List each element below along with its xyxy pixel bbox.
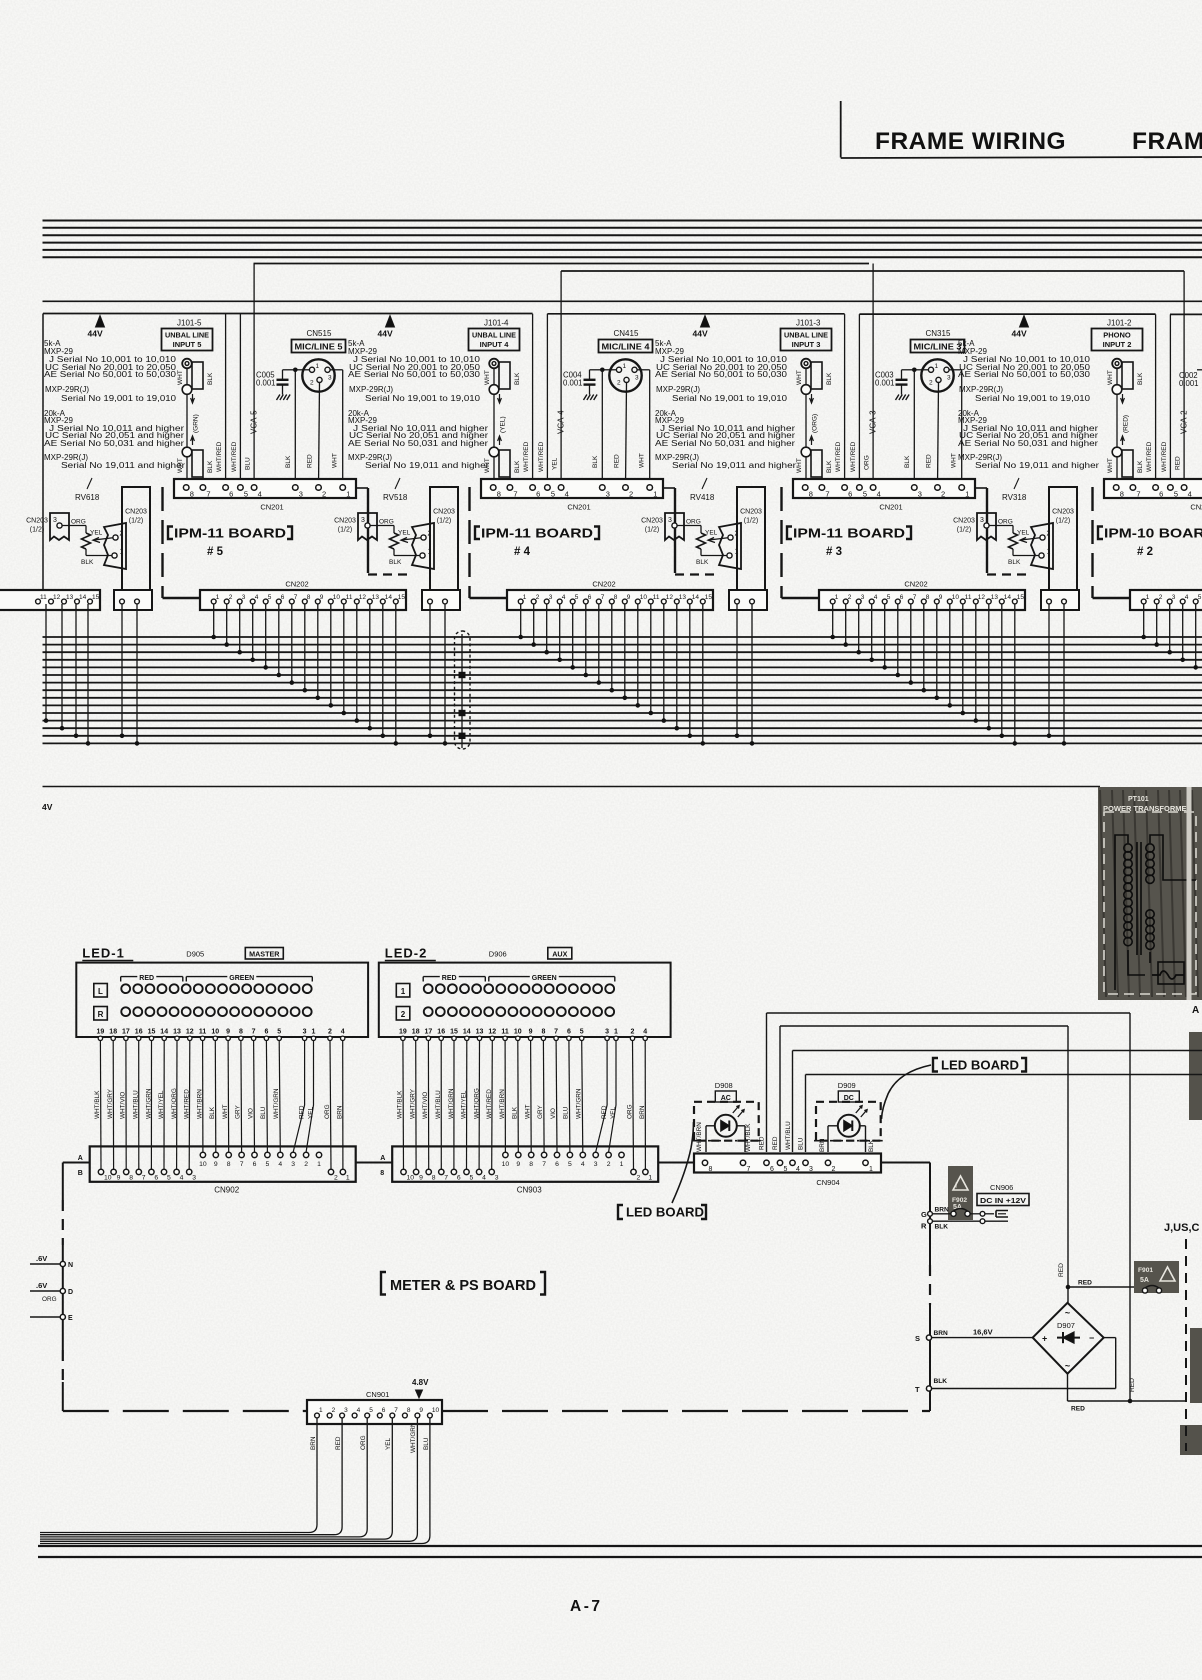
svg-text:2: 2: [832, 1166, 836, 1173]
svg-text:D906: D906: [489, 950, 507, 959]
pin circles LED-2: [401, 1036, 405, 1040]
svg-text:GRY: GRY: [537, 1105, 544, 1119]
svg-text:WHT: WHT: [177, 458, 184, 473]
svg-text:2: 2: [310, 380, 314, 387]
separator rule above lower section: [43, 786, 1101, 788]
svg-text:11: 11: [501, 1029, 509, 1036]
svg-text:9: 9: [627, 594, 631, 601]
capacitor C004 ch4: [590, 369, 603, 371]
svg-text:T: T: [915, 1385, 920, 1394]
svg-text:4: 4: [180, 1175, 184, 1182]
LED light arrows D908: [733, 1106, 739, 1113]
harness wires LED-2 to CN903: [402, 1041, 405, 1170]
svg-text:F901: F901: [1138, 1267, 1153, 1274]
svg-text:RED: RED: [926, 454, 933, 468]
svg-text:15: 15: [450, 1029, 458, 1036]
svg-text:BLU: BLU: [245, 457, 252, 470]
svg-text:12: 12: [359, 594, 367, 601]
svg-text:6: 6: [281, 594, 285, 601]
svg-text:WHT/GRY: WHT/GRY: [410, 1088, 417, 1119]
wire pot to pin1 RV318: [1012, 549, 1014, 556]
svg-text:MIC/LINE 4: MIC/LINE 4: [602, 343, 651, 352]
svg-text:17: 17: [122, 1029, 130, 1036]
svg-text:RED: RED: [298, 1105, 305, 1119]
svg-text:3: 3: [53, 517, 57, 524]
svg-text:.6V: .6V: [36, 1281, 47, 1290]
svg-text:9: 9: [117, 1175, 121, 1182]
svg-text:2: 2: [328, 1029, 332, 1036]
svg-text:ORG: ORG: [324, 1104, 331, 1119]
wire pot to pin1 RV618: [85, 549, 87, 556]
svg-text:CN415: CN415: [614, 329, 639, 338]
svg-text:E: E: [68, 1315, 73, 1322]
svg-text:7: 7: [542, 1161, 546, 1168]
connector flag CN203 pin3 RV618: [50, 513, 69, 540]
svg-text:8: 8: [432, 1175, 436, 1182]
svg-text:6: 6: [588, 594, 592, 601]
svg-text:16: 16: [135, 1029, 143, 1036]
svg-text:5: 5: [167, 1175, 171, 1182]
svg-text:4: 4: [874, 594, 878, 601]
svg-text:CN903: CN903: [517, 1186, 542, 1195]
svg-text:9: 9: [516, 1161, 520, 1168]
connector flag CN203 pin3 RV418: [665, 513, 684, 540]
svg-text:(1/2): (1/2): [645, 527, 659, 534]
svg-text:Serial No 19,011 and higher: Serial No 19,011 and higher: [61, 461, 185, 470]
svg-text:RV318: RV318: [1002, 493, 1027, 502]
svg-text:(RED): (RED): [1123, 415, 1130, 433]
board edge pins N, D, E: [30, 1263, 63, 1265]
svg-text:4: 4: [482, 1175, 486, 1182]
svg-text:7: 7: [554, 1029, 558, 1036]
connector CN203 half-2 box RV618: [122, 487, 150, 593]
CN903 top pin row: [503, 1152, 508, 1157]
svg-text:WHT/BRN: WHT/BRN: [196, 1089, 203, 1119]
svg-text:MXP-29R(J): MXP-29R(J): [45, 385, 89, 394]
svg-text:5A: 5A: [1140, 1277, 1149, 1284]
svg-text:J101-5: J101-5: [177, 319, 202, 328]
svg-text:WHT/VIO: WHT/VIO: [422, 1092, 429, 1119]
connector CN203 half-2 box RV518: [430, 487, 458, 593]
svg-text:5: 5: [277, 1029, 281, 1036]
svg-text:8: 8: [529, 1161, 533, 1168]
junction capsule callout: [455, 631, 471, 749]
svg-text:7: 7: [294, 594, 298, 601]
optical axis dash-dot D909: [814, 1140, 883, 1142]
svg-text:1: 1: [965, 490, 969, 499]
connector bar below CN203 RV418: [729, 590, 767, 610]
wire CN902 to CN903: [356, 1162, 393, 1164]
svg-text:WHT/RED: WHT/RED: [538, 441, 545, 472]
svg-text:2: 2: [334, 1175, 338, 1182]
svg-text:Serial No 19,001 to 19,010: Serial No 19,001 to 19,010: [61, 394, 177, 403]
svg-text:44V: 44V: [88, 329, 103, 339]
svg-text:6: 6: [1159, 490, 1163, 499]
drops from CN203 bar RV318: [1048, 604, 1050, 736]
svg-text:BLK: BLK: [514, 372, 521, 385]
svg-text:BLK: BLK: [826, 460, 833, 473]
board name IPM board #4: [475, 527, 480, 540]
ground symbol ch4: [584, 395, 587, 401]
CN202 harness drops ch2: [1143, 604, 1145, 637]
connector bar below CN203 RV518: [422, 590, 460, 610]
svg-text:+: +: [1042, 1334, 1047, 1344]
svg-text:A: A: [380, 1155, 385, 1162]
svg-text:(1/2): (1/2): [744, 518, 758, 525]
drops from CN203 bar RV418: [736, 604, 738, 736]
horizontal feeders to power section: [767, 1012, 1131, 1014]
connector CN201 ch5: [174, 479, 356, 498]
svg-text:BRN: BRN: [934, 1330, 949, 1337]
svg-text:(1/2): (1/2): [437, 518, 451, 525]
svg-text:11: 11: [40, 594, 47, 601]
svg-text:9: 9: [419, 1175, 423, 1182]
input legend box ch3: [781, 329, 832, 351]
svg-text:Serial No 19,001 to 19,010: Serial No 19,001 to 19,010: [672, 394, 788, 403]
label LED BOARD (upper): [933, 1058, 938, 1072]
svg-text:5: 5: [580, 1029, 584, 1036]
svg-text:INPUT 5: INPUT 5: [173, 340, 202, 349]
svg-text:WHT: WHT: [639, 453, 646, 468]
svg-text:10: 10: [640, 594, 648, 601]
svg-text:.6V: .6V: [36, 1254, 47, 1263]
svg-text:(GRN): (GRN): [193, 414, 200, 433]
svg-text:9: 9: [214, 1161, 218, 1168]
svg-text:5: 5: [1198, 594, 1202, 601]
svg-text:WHT/RED: WHT/RED: [850, 441, 857, 472]
svg-text:A: A: [1192, 1005, 1199, 1016]
svg-text:BRN: BRN: [639, 1105, 646, 1119]
svg-text:8: 8: [497, 490, 501, 499]
legend box MASTER: [245, 948, 283, 960]
svg-text:1: 1: [319, 1407, 323, 1414]
svg-text:J101-3: J101-3: [796, 319, 821, 328]
wire pin3 to pot RV318: [989, 525, 1013, 527]
svg-text:RED: RED: [1129, 1378, 1136, 1392]
svg-text:PHONO: PHONO: [1103, 331, 1131, 340]
svg-text:WHT/ORG: WHT/ORG: [473, 1088, 480, 1119]
svg-text:BLK: BLK: [934, 1378, 948, 1385]
connector flag CN203 pins 2,1 RV518: [412, 523, 434, 569]
svg-text:10: 10: [199, 1161, 207, 1168]
svg-text:POWER TRANSFORMER: POWER TRANSFORMER: [1103, 804, 1193, 813]
optical axis dash-dot D908: [692, 1140, 761, 1142]
page bottom rule 2: [38, 1556, 1202, 1558]
svg-text:(ORG): (ORG): [812, 414, 819, 433]
svg-text:ORG: ORG: [864, 455, 871, 470]
svg-text:1: 1: [869, 1166, 873, 1173]
svg-text:R: R: [921, 1222, 927, 1231]
CN902 bottom pin row: [98, 1169, 103, 1174]
connector bar below CN203 RV618: [114, 590, 152, 610]
svg-text:RED: RED: [139, 975, 154, 982]
wire pin3 to pot RV618: [62, 525, 86, 527]
svg-text:5: 5: [244, 490, 248, 499]
svg-text:WHT/RED: WHT/RED: [1161, 441, 1168, 472]
svg-text:R: R: [98, 1010, 104, 1019]
svg-text:14: 14: [160, 1029, 168, 1036]
svg-text:WHT/GRN: WHT/GRN: [145, 1088, 152, 1119]
svg-text:8: 8: [1120, 490, 1124, 499]
svg-text:# 3: # 3: [826, 546, 842, 558]
svg-text:1: 1: [523, 594, 527, 601]
svg-text:WHT: WHT: [796, 458, 803, 473]
svg-text:14: 14: [692, 594, 700, 601]
svg-text:7: 7: [513, 490, 517, 499]
svg-text:CN201: CN201: [567, 503, 590, 512]
svg-text:7: 7: [394, 1407, 398, 1414]
svg-text:3: 3: [809, 1166, 813, 1173]
LED light arrows D909: [856, 1106, 862, 1113]
svg-text:7: 7: [444, 1175, 448, 1182]
wire net P1 (BLU pins-4 ch5-ch3) horizontal: [254, 263, 870, 265]
svg-text:BLK: BLK: [1008, 559, 1021, 566]
svg-text:2: 2: [629, 490, 633, 499]
svg-text:AE Serial No 50,001 to 50,03: AE Serial No 50,001 to 50,030: [348, 370, 481, 379]
board outline right side: [881, 1162, 930, 1164]
44V supply arrow ch5: [96, 316, 105, 328]
svg-text:AE Serial No 50,031 and high: AE Serial No 50,031 and higher: [655, 439, 795, 448]
svg-text:7: 7: [240, 1161, 244, 1168]
dark component strip right edge (bottom): [1180, 1425, 1202, 1455]
svg-text:IPM-11 BOARD: IPM-11 BOARD: [174, 526, 286, 541]
connector CN201 ch3: [793, 479, 975, 498]
svg-text:2: 2: [617, 380, 621, 387]
connector flag CN203 pins 2,1 RV318: [1031, 523, 1053, 569]
svg-text:RED: RED: [601, 1105, 608, 1119]
XLR wires to CN201 ch3: [914, 369, 928, 371]
svg-text:2: 2: [304, 1161, 308, 1168]
svg-text:1: 1: [346, 1175, 350, 1182]
dark component strip right edge (AC select): [1189, 1032, 1202, 1120]
svg-text:3: 3: [668, 517, 672, 524]
connector bar below CN203 RV318: [1041, 590, 1079, 610]
svg-text:CN906: CN906: [990, 1183, 1013, 1192]
svg-text:5: 5: [369, 1407, 373, 1414]
svg-text:10: 10: [104, 1175, 112, 1182]
connector CN201 ch2: [1104, 479, 1202, 498]
svg-text:~: ~: [1065, 1308, 1070, 1318]
ch6 harness drops: [45, 604, 47, 721]
RED group bracket LED-2: [422, 977, 424, 982]
svg-text:MIC/LINE 5: MIC/LINE 5: [295, 343, 344, 352]
row label 1 box: [396, 984, 410, 998]
svg-text:8: 8: [407, 1407, 411, 1414]
svg-text:5: 5: [568, 1161, 572, 1168]
wire net W (pin5/6 distribution) segments at y=313: [43, 313, 533, 315]
svg-text:17: 17: [425, 1029, 433, 1036]
svg-text:7: 7: [601, 594, 605, 601]
svg-text:WHT/GRN: WHT/GRN: [410, 1422, 417, 1453]
svg-text:UNBAL LINE: UNBAL LINE: [472, 331, 516, 340]
capacitor C003 ch3: [902, 369, 915, 371]
svg-text:RED: RED: [1071, 1406, 1085, 1413]
svg-text:LED BOARD: LED BOARD: [941, 1059, 1019, 1073]
svg-text:4: 4: [565, 490, 569, 499]
svg-text:0.001: 0.001: [256, 379, 276, 388]
LED row 1 LED-2: [424, 984, 433, 993]
connector bar CN202 ch6 (clipped): [0, 590, 100, 610]
svg-text:AUX: AUX: [552, 949, 567, 958]
svg-text:D: D: [68, 1289, 73, 1296]
svg-text:WHT/BLK: WHT/BLK: [745, 1123, 752, 1152]
LED array box LED-1: [76, 963, 368, 1037]
svg-text:INPUT 4: INPUT 4: [480, 340, 510, 349]
svg-text:AE Serial No 50,031 and high: AE Serial No 50,031 and higher: [348, 439, 488, 448]
title block rule (vertical): [840, 101, 842, 158]
svg-text:YEL: YEL: [552, 457, 559, 470]
svg-text:BLK: BLK: [696, 559, 709, 566]
svg-text:WHT: WHT: [951, 453, 958, 468]
svg-text:INPUT 3: INPUT 3: [792, 340, 821, 349]
svg-text:3: 3: [594, 1161, 598, 1168]
svg-text:FRAME WIRING: FRAME WIRING: [875, 128, 1066, 155]
connector flag CN203 pins 2,1 RV418: [719, 523, 741, 569]
wire pin3 to pot RV418: [677, 525, 701, 527]
svg-text:6: 6: [154, 1175, 158, 1182]
svg-text:13: 13: [66, 594, 74, 601]
connector CN201 ch4: [481, 479, 663, 498]
svg-text:4V: 4V: [42, 802, 53, 812]
svg-text:15: 15: [705, 594, 713, 601]
legend box DC: [838, 1091, 859, 1102]
svg-text:1: 1: [312, 1029, 316, 1036]
svg-text:1: 1: [935, 363, 939, 370]
svg-text:4.8V: 4.8V: [412, 1378, 429, 1387]
svg-text:WHT: WHT: [796, 370, 803, 385]
svg-text:5: 5: [551, 490, 555, 499]
svg-text:7: 7: [252, 1029, 256, 1036]
svg-text:WHT/RED: WHT/RED: [184, 1089, 191, 1119]
svg-text:3: 3: [980, 517, 984, 524]
connector CN203 half-2 box RV418: [737, 487, 765, 593]
board outline IPM board #3: [780, 487, 782, 598]
svg-text:Serial No 19,001 to 19,010: Serial No 19,001 to 19,010: [365, 394, 481, 403]
svg-text:RED: RED: [614, 454, 621, 468]
svg-text:7: 7: [825, 490, 829, 499]
svg-text:3: 3: [549, 594, 553, 601]
connector flag CN203 pins 2,1 RV618: [104, 523, 126, 569]
svg-text:3: 3: [328, 375, 332, 382]
svg-text:1: 1: [1146, 594, 1150, 601]
bridge AC-right loop: [1104, 1337, 1116, 1339]
svg-text:13: 13: [372, 594, 380, 601]
svg-text:AE Serial No 50,001 to 50,03: AE Serial No 50,001 to 50,030: [655, 370, 788, 379]
svg-text:9: 9: [529, 1029, 533, 1036]
svg-text:# 5: # 5: [207, 546, 224, 558]
44V supply arrow ch3: [701, 316, 710, 328]
svg-text:D909: D909: [838, 1081, 856, 1090]
potentiometer RV418: [697, 533, 706, 549]
svg-text:WHT/RED: WHT/RED: [486, 1089, 493, 1119]
svg-text:1: 1: [346, 490, 350, 499]
svg-text:B: B: [78, 1170, 83, 1177]
svg-text:15: 15: [398, 594, 406, 601]
wire net P2 (pin-4 ch4-ch2) horizontal: [561, 270, 1184, 272]
meter board wire into CN902: [63, 1162, 90, 1164]
svg-text:7: 7: [747, 1166, 751, 1173]
svg-text:YEL: YEL: [90, 530, 103, 537]
svg-text:6: 6: [253, 1161, 257, 1168]
svg-text:RV418: RV418: [690, 493, 715, 502]
CN201 riser wires ch5: [225, 314, 227, 486]
svg-text:~: ~: [1065, 1361, 1070, 1371]
svg-text:RV618: RV618: [75, 493, 100, 502]
svg-text:15: 15: [1017, 594, 1025, 601]
svg-text:MIC/LINE 3: MIC/LINE 3: [914, 343, 963, 352]
LED leads D908: [705, 1126, 707, 1152]
svg-text:WHT/VIO: WHT/VIO: [120, 1092, 127, 1119]
svg-text:ORG: ORG: [686, 519, 701, 526]
svg-text:19: 19: [97, 1029, 105, 1036]
svg-text:RED: RED: [1058, 1263, 1065, 1277]
svg-text:(1/2): (1/2): [129, 518, 143, 525]
svg-text:BLK: BLK: [592, 455, 599, 468]
svg-text:CN203: CN203: [1052, 509, 1074, 516]
svg-text:!: !: [955, 1183, 957, 1190]
svg-text:10: 10: [952, 594, 960, 601]
svg-text:5: 5: [470, 1175, 474, 1182]
svg-text:WHT/YEL: WHT/YEL: [158, 1090, 165, 1119]
svg-text:3: 3: [495, 1175, 499, 1182]
svg-text:BLK: BLK: [935, 1224, 949, 1231]
svg-text:14: 14: [385, 594, 393, 601]
svg-text:3: 3: [192, 1175, 196, 1182]
diode symbol inside D907: [1057, 1337, 1080, 1339]
transformer thermal protector: [1152, 971, 1184, 979]
ground symbol ch3: [896, 395, 899, 401]
svg-text:YEL: YEL: [610, 1106, 617, 1119]
svg-text:8: 8: [541, 1029, 545, 1036]
svg-text:14: 14: [79, 594, 87, 601]
LED row 1 LED-1: [121, 984, 130, 993]
svg-text:BLK: BLK: [207, 372, 214, 385]
svg-text:16,6V: 16,6V: [973, 1328, 993, 1337]
svg-text:8: 8: [190, 490, 194, 499]
svg-text:IPM-11 BOARD: IPM-11 BOARD: [481, 526, 593, 541]
svg-text:4: 4: [258, 490, 262, 499]
CN201 riser wires ch2: [1155, 314, 1157, 485]
svg-text:6: 6: [555, 1161, 559, 1168]
svg-text:RED: RED: [307, 454, 314, 468]
connector CN203 half-2 box RV318: [1049, 487, 1077, 593]
svg-text:6: 6: [567, 1029, 571, 1036]
svg-text:BRN: BRN: [935, 1207, 950, 1214]
input legend box ch2: [1092, 329, 1143, 351]
svg-text:WHT/BLU: WHT/BLU: [133, 1090, 140, 1119]
svg-text:DC IN +12V: DC IN +12V: [980, 1196, 1026, 1205]
svg-text:5: 5: [863, 490, 867, 499]
svg-text:AE Serial No 50,031 and high: AE Serial No 50,031 and higher: [44, 439, 184, 448]
svg-text:BLK: BLK: [1137, 372, 1144, 385]
svg-text:15: 15: [92, 594, 100, 601]
riser RED from feeder to bridge: [1067, 1026, 1069, 1303]
CN202 harness drops ch5: [213, 604, 215, 637]
CN902 top pin row: [200, 1152, 205, 1157]
svg-text:BLK: BLK: [209, 1106, 216, 1119]
svg-text:2: 2: [848, 594, 852, 601]
wire pot to pin1 RV518: [393, 549, 395, 556]
svg-text:3: 3: [947, 375, 951, 382]
svg-text:1: 1: [316, 363, 320, 370]
bridge minus output: [1067, 1374, 1069, 1401]
svg-text:ORG: ORG: [360, 1435, 367, 1450]
svg-text:LED-2: LED-2: [385, 946, 428, 961]
top harness bus (6 wires): [43, 220, 1202, 222]
svg-text:11: 11: [199, 1029, 207, 1036]
svg-text:BLK: BLK: [285, 455, 292, 468]
svg-text:# 2: # 2: [1137, 546, 1153, 558]
